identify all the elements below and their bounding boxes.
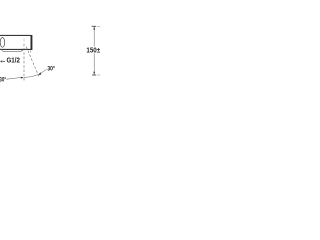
angle dimension arc <box>24 75 38 78</box>
svg-text:G1/2: G1/2 <box>7 57 20 64</box>
bottom tick <box>92 74 96 76</box>
150 dimension line upper segment <box>93 27 95 47</box>
left angle leader arrowhead <box>21 77 24 79</box>
left angle leader line <box>6 78 21 80</box>
top arrowhead up <box>93 27 95 30</box>
150 dimension line lower segment <box>93 53 95 74</box>
top tick <box>92 25 97 27</box>
bottom right dash <box>97 74 100 76</box>
G1/2 leader arrowhead <box>21 49 24 51</box>
vertical outlet axis dashed <box>23 38 25 41</box>
G1/2 label dash <box>3 60 5 62</box>
right angle leader line <box>39 69 47 74</box>
shower arm body rectangle <box>0 35 31 49</box>
bottom arrowhead down <box>93 72 95 75</box>
tilted outlet axis dashed <box>26 47 39 77</box>
svg-text:30°: 30° <box>47 64 55 72</box>
G1/2 leader line <box>0 49 23 52</box>
wall flange ellipse <box>0 38 5 48</box>
top right dash <box>97 25 100 27</box>
svg-text:30°: 30° <box>0 76 6 84</box>
corner stub dash <box>29 50 32 52</box>
svg-text:150±: 150± <box>86 48 100 55</box>
G1/2 label left arrow <box>0 60 2 63</box>
bold end cap bar <box>31 35 33 50</box>
right angle leader arrowhead <box>38 72 41 75</box>
